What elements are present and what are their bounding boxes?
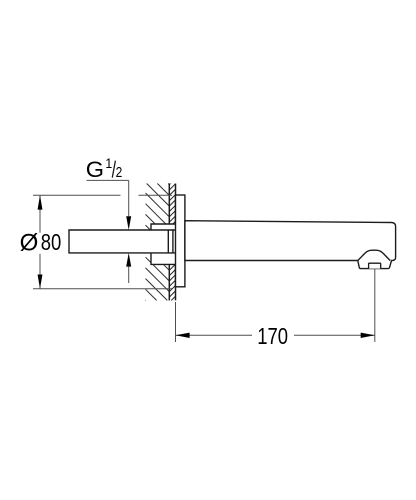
svg-text:170: 170 [257,324,288,349]
svg-text:1: 1 [105,155,112,171]
svg-text:Ø: Ø [20,229,39,256]
svg-text:2: 2 [116,164,123,181]
svg-text:G: G [86,157,104,182]
svg-text:80: 80 [41,230,62,255]
